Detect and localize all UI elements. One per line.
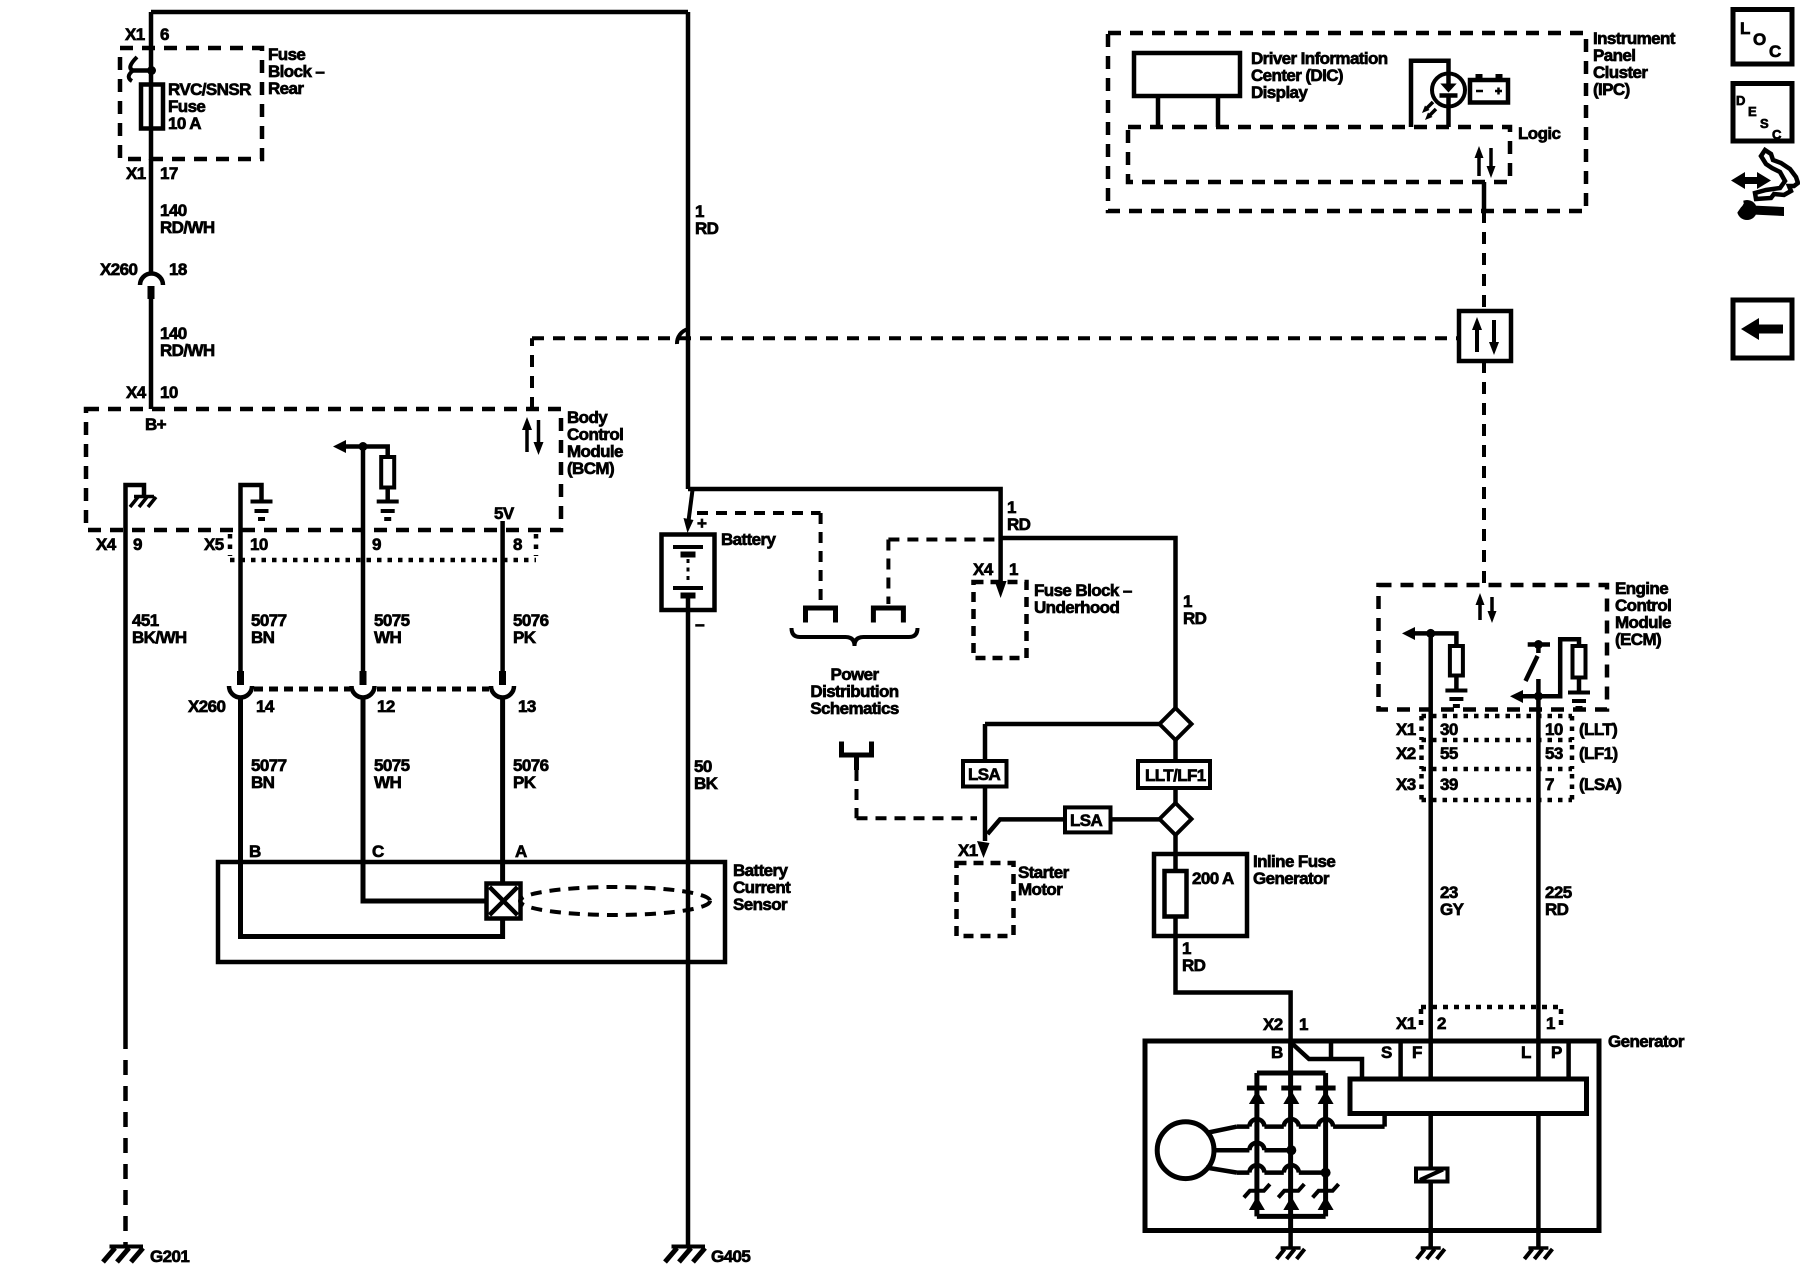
wire 225 RD (ECM to generator L) <box>1536 679 1541 1041</box>
svg-text:RD/WH: RD/WH <box>160 341 215 360</box>
svg-text:5V: 5V <box>494 504 515 523</box>
svg-text:Display: Display <box>1251 83 1308 102</box>
ECM serial data arrows <box>1476 593 1497 623</box>
serial data gateway box <box>1459 311 1511 361</box>
wire label 5076 PK (2) <box>513 756 549 792</box>
svg-text:LSA: LSA <box>1070 811 1103 830</box>
wire label 5077 BN <box>251 611 287 647</box>
wire label 451 BK/WH <box>132 611 187 647</box>
wire: lower diamond to LSA2 <box>1111 817 1160 822</box>
X260 row labels <box>188 697 536 716</box>
serial data hop mark on main wire <box>677 329 688 344</box>
LSA box 2 <box>1065 807 1111 832</box>
wire 451 BK/WH dashed lower segment <box>123 1034 128 1246</box>
svg-text:BK/WH: BK/WH <box>132 628 187 647</box>
ECM right driver: wire with junction <box>1521 639 1579 700</box>
X5 connector row labels <box>96 535 522 554</box>
svg-text:X260: X260 <box>188 697 225 716</box>
margin icon back arrow box <box>1733 300 1792 358</box>
svg-text:10: 10 <box>250 535 268 554</box>
svg-text:Schematics: Schematics <box>810 699 899 718</box>
IPC dashed box <box>1108 33 1586 211</box>
svg-text:Logic: Logic <box>1518 124 1560 143</box>
svg-text:WH: WH <box>374 628 401 647</box>
connector X260 pin 12 <box>352 671 375 698</box>
phase B junction on column 2 <box>1286 1145 1296 1155</box>
wire label 23 GY <box>1440 883 1465 919</box>
svg-text:(ECM): (ECM) <box>1615 630 1661 649</box>
power distribution bus bar 1 <box>806 608 836 623</box>
generator chassis ground (F) <box>1417 1248 1445 1259</box>
generator terminal divider P <box>1566 1041 1571 1079</box>
arrow into starter motor X1 <box>977 841 990 858</box>
svg-text:+: + <box>697 514 707 533</box>
ECM row X1 labels <box>1396 720 1617 739</box>
svg-text:1: 1 <box>1299 1015 1308 1034</box>
DIC display legs <box>1158 96 1218 127</box>
svg-text:RD/WH: RD/WH <box>160 218 215 237</box>
svg-text:9: 9 <box>133 535 142 554</box>
generator X1 connector dotted bracket <box>1421 1007 1561 1031</box>
wire: LSA1 to starter <box>983 787 988 842</box>
rectifier zener diode 1 <box>1244 1184 1270 1210</box>
starter motor label <box>1018 863 1070 899</box>
wire 5077 BN upper <box>238 530 243 671</box>
generator box <box>1145 1041 1599 1231</box>
svg-text:RD: RD <box>1183 609 1207 628</box>
svg-text:X4: X4 <box>126 383 147 402</box>
gateway arrows <box>1472 317 1499 355</box>
fuse block underhood label <box>1034 581 1132 617</box>
field winding symbol <box>1416 1169 1448 1182</box>
ECM left pull resistor <box>1450 646 1463 676</box>
margin icon DESC box <box>1733 84 1792 143</box>
generator ground stub B <box>1288 1231 1293 1249</box>
rectifier zener diode 2 <box>1278 1184 1304 1210</box>
wire 23 GY (ECM to generator F) <box>1428 633 1433 1041</box>
DIC display box <box>1134 53 1240 96</box>
svg-text:(BCM): (BCM) <box>567 459 614 478</box>
margin icon data exchange hand <box>1731 150 1798 199</box>
wire: fuse block rear feed drop X1-6 <box>149 12 154 70</box>
phase C hop over column 1 <box>1249 1165 1264 1173</box>
BCM earth ground symbol (pin 10) <box>251 502 273 520</box>
BCM pull resistor <box>381 457 394 488</box>
svg-text:Underhood: Underhood <box>1034 598 1119 617</box>
ECM earth ground (left) <box>1445 691 1467 707</box>
svg-text:B+: B+ <box>145 415 167 434</box>
ECM left driver: wire and junction <box>1413 629 1456 646</box>
wire label 140 RD/WH (2) <box>160 324 215 360</box>
BCM chassis ground symbol <box>130 497 156 508</box>
svg-text:Motor: Motor <box>1018 880 1063 899</box>
svg-text:X260: X260 <box>100 260 137 279</box>
wire: inline fuse to generator B X2-1 <box>1176 936 1291 1041</box>
svg-text:Rear: Rear <box>268 79 304 98</box>
wire: LSA2 to starter junction <box>988 819 1066 834</box>
stator phase B lead <box>1214 1148 1292 1153</box>
LLT/LF1 box <box>1138 761 1210 788</box>
svg-text:X3: X3 <box>1396 775 1416 794</box>
wire label 5077 BN (2) <box>251 756 287 792</box>
svg-text:O: O <box>1753 30 1766 49</box>
svg-text:X1: X1 <box>958 841 978 860</box>
svg-text:RD: RD <box>1545 900 1569 919</box>
phase A hop over column 3 <box>1318 1119 1333 1127</box>
svg-text:C: C <box>1772 127 1782 142</box>
svg-text:D: D <box>1736 93 1745 108</box>
svg-text:X4: X4 <box>96 535 117 554</box>
serial data dashed bus horizontal <box>532 336 1459 340</box>
svg-text:BN: BN <box>251 628 275 647</box>
svg-text:6: 6 <box>160 25 169 44</box>
svg-text:X1: X1 <box>125 25 145 44</box>
svg-text:8: 8 <box>513 535 522 554</box>
ECM dashed box <box>1379 585 1608 710</box>
wire 140 RD/WH upper segment <box>149 159 154 274</box>
svg-text:L: L <box>1521 1043 1531 1062</box>
generator ground stub F <box>1428 1231 1433 1249</box>
ECM connector dotted band row X1 <box>1422 716 1573 740</box>
DIC label <box>1251 49 1388 102</box>
wire 451 BK/WH <box>123 530 128 1034</box>
power distribution brace <box>792 628 918 646</box>
wire label 5076 PK <box>513 611 549 647</box>
rectifier top diode 1 <box>1247 1088 1267 1104</box>
svg-text:18: 18 <box>169 260 187 279</box>
power distribution stub symbol <box>842 742 872 771</box>
svg-text:E: E <box>1748 104 1757 119</box>
telltale emission arrows <box>1422 102 1436 120</box>
ECM right driver: arrow out <box>1510 690 1523 703</box>
generator terminal divider S/F <box>1398 1041 1403 1079</box>
BCM earth ground symbol (pin 9) <box>377 502 399 520</box>
wire: 1 RD branch to generator feed <box>1001 538 1176 708</box>
BCM internal ground branch X4-9: wire <box>126 485 145 530</box>
svg-text:X2: X2 <box>1263 1015 1283 1034</box>
serial data dashed: gateway to ECM <box>1482 361 1486 585</box>
connector X260 pin 18 <box>140 274 163 300</box>
X5 connector dotted band <box>230 534 536 560</box>
sensor terminal labels B C A <box>249 842 527 861</box>
rectifier bridge top bar <box>1257 1071 1326 1076</box>
svg-text:Generator: Generator <box>1253 869 1330 888</box>
svg-text:X1: X1 <box>1396 1014 1416 1033</box>
phase C hop over column 2 <box>1284 1165 1299 1173</box>
rectifier top diode 3 <box>1316 1088 1336 1104</box>
svg-text:B: B <box>1271 1043 1283 1062</box>
wire: battery negative 50 BK to G405 <box>686 598 691 1246</box>
wire label 1 RD (generator feed) <box>1182 939 1206 975</box>
generator ground stub L <box>1536 1231 1541 1249</box>
svg-text:1: 1 <box>1546 1014 1555 1033</box>
rectifier zener diode 3 <box>1313 1184 1339 1210</box>
wire 5076 PK lower (to sensor A) <box>500 697 505 884</box>
wire label 140 RD/WH <box>160 201 215 237</box>
arrow into battery positive <box>684 490 694 533</box>
svg-text:X5: X5 <box>204 535 224 554</box>
wire: main feed vertical 1 RD <box>686 12 691 489</box>
wire label 5075 WH (2) <box>374 756 410 792</box>
stator phase A lead <box>1206 1114 1385 1134</box>
svg-text:L: L <box>1740 19 1750 38</box>
generator B to S sense link <box>1292 1041 1363 1079</box>
svg-text:G201: G201 <box>150 1247 189 1266</box>
logic dashed box <box>1128 127 1510 182</box>
generator terminal letters <box>1271 1043 1562 1062</box>
wire 5075 WH upper <box>361 530 366 671</box>
BCM internal ground branch X5-10: wire <box>241 485 262 530</box>
splice diamond lower <box>1160 803 1192 835</box>
fuse block rear dashed box <box>120 48 262 159</box>
svg-text:LSA: LSA <box>968 765 1001 784</box>
power distribution schematics label <box>810 665 899 718</box>
rectifier top diode 2 <box>1281 1088 1301 1104</box>
svg-text:Battery: Battery <box>721 530 777 549</box>
svg-text:(LLT): (LLT) <box>1579 720 1617 739</box>
connector X260-18 labels <box>100 260 187 279</box>
svg-text:PK: PK <box>513 628 537 647</box>
node X4 pin 10 label <box>126 383 178 402</box>
svg-text:GY: GY <box>1440 900 1465 919</box>
stator winding circle <box>1157 1122 1214 1179</box>
svg-text:S: S <box>1381 1043 1392 1062</box>
ECM earth ground (right) <box>1568 693 1590 709</box>
BCM serial data arrows <box>522 417 544 455</box>
phase A hop over column 1 <box>1249 1119 1264 1127</box>
svg-text:BN: BN <box>251 773 275 792</box>
battery box <box>662 535 715 611</box>
svg-text:−: − <box>695 616 705 635</box>
generator F wire (field) <box>1428 1041 1433 1231</box>
wire label 1 RD (right) <box>1183 592 1207 628</box>
fuse F RVC/SNSR element hook <box>129 57 156 81</box>
splice diamond upper <box>1160 708 1192 740</box>
wire: logic to IPC edge <box>1482 182 1487 211</box>
wire 5077 BN lower (to sensor B) <box>241 697 503 937</box>
svg-text:G405: G405 <box>711 1247 750 1266</box>
svg-text:12: 12 <box>377 697 395 716</box>
LSA box 1 <box>963 761 1007 787</box>
BCM label <box>567 408 623 478</box>
svg-text:13: 13 <box>518 697 536 716</box>
svg-text:C: C <box>1769 42 1781 61</box>
svg-text:55: 55 <box>1440 744 1458 763</box>
battery cell plates <box>673 547 703 596</box>
node X1 pin 6 label <box>125 25 169 44</box>
svg-text:S: S <box>1760 116 1769 131</box>
serial data dashed: BCM riser <box>530 338 534 409</box>
connector X260 pin 14 <box>229 671 252 698</box>
svg-text:C: C <box>372 842 384 861</box>
telltale lamp circuit wire <box>1411 61 1449 127</box>
wire: battery branch to fuse block underhood <box>688 489 1001 583</box>
svg-text:RD: RD <box>1182 956 1206 975</box>
wire label 225 RD <box>1545 883 1572 919</box>
wire 5075 WH lower (to sensor C) <box>363 697 487 901</box>
ECM left driver: arrow out <box>1402 627 1415 640</box>
margin icon wrench <box>1727 196 1784 220</box>
svg-text:10: 10 <box>160 383 178 402</box>
wire through fuse <box>149 71 154 161</box>
BCM internal arrow (signal out) <box>333 440 346 453</box>
rectifier column 3 <box>1323 1073 1328 1216</box>
fuse block underhood dashed box <box>974 582 1027 658</box>
fuse block rear label <box>268 45 324 98</box>
svg-text:7: 7 <box>1545 775 1554 794</box>
dashed lead battery to power distribution <box>697 513 821 604</box>
stator phase C lead <box>1206 1168 1326 1173</box>
svg-text:X4: X4 <box>973 560 994 579</box>
node X1 pins 2 and 1 labels (generator) <box>1396 1014 1555 1033</box>
svg-text:X1: X1 <box>1396 720 1416 739</box>
svg-text:(LF1): (LF1) <box>1579 744 1618 763</box>
svg-text:A: A <box>515 842 527 861</box>
svg-text:17: 17 <box>160 164 178 183</box>
ground G201 symbol <box>103 1247 143 1263</box>
phase A hop over column 2 <box>1284 1119 1299 1127</box>
wire: diamond to LSA splice pack leg <box>985 724 1160 761</box>
fuse RVC/SNSR body <box>141 85 163 129</box>
svg-text:1: 1 <box>1009 560 1018 579</box>
svg-text:BK: BK <box>694 774 719 793</box>
generator B bus wire <box>1288 1041 1293 1231</box>
node X4 pin 1 labels <box>973 560 1018 579</box>
phase B hop over column 1 <box>1249 1143 1264 1151</box>
wire: top battery feed bus <box>151 10 688 15</box>
svg-text:RD: RD <box>1007 515 1031 534</box>
svg-text:Sensor: Sensor <box>733 895 788 914</box>
ECM right pull resistor <box>1573 646 1586 678</box>
inline fuse generator label <box>1253 852 1335 888</box>
BCM dashed box <box>86 409 561 530</box>
svg-text:10 A: 10 A <box>168 114 201 133</box>
ECM row X2 labels <box>1396 744 1618 763</box>
logic serial arrows <box>1475 146 1496 178</box>
svg-text:B: B <box>249 842 261 861</box>
ECM right resistor ground wire <box>1577 678 1582 692</box>
ECM row X3 labels <box>1396 775 1621 794</box>
battery current sensor loop dashed ellipse <box>520 887 710 915</box>
svg-text:30: 30 <box>1440 720 1458 739</box>
svg-text:P: P <box>1551 1043 1562 1062</box>
svg-text:RD: RD <box>695 219 719 238</box>
wire: between diamonds through LLT/LF1 <box>1173 740 1178 803</box>
battery current sensor label <box>733 861 791 914</box>
svg-text:PK: PK <box>513 773 537 792</box>
wire label 5075 WH <box>374 611 410 647</box>
ECM connector dotted band row X2 <box>1422 745 1573 769</box>
svg-text:WH: WH <box>374 773 401 792</box>
node X2 pin 1 labels <box>1263 1015 1308 1034</box>
BCM resistor ground wire <box>385 488 390 501</box>
battery current sensor box <box>218 862 725 962</box>
ECM right switch: top contact <box>1528 640 1550 653</box>
wire 5076 PK upper <box>500 521 505 671</box>
svg-text:10: 10 <box>1545 720 1563 739</box>
wire label 1 RD (underhood) <box>1007 498 1031 534</box>
ground G405 symbol <box>665 1247 705 1263</box>
starter motor dashed box <box>957 863 1014 936</box>
telltale LED circle <box>1432 74 1465 107</box>
svg-text:Generator: Generator <box>1608 1032 1685 1051</box>
svg-text:53: 53 <box>1545 744 1563 763</box>
wire: diamond lower to inline fuse <box>1173 835 1178 854</box>
phase C junction on column 3 <box>1321 1168 1331 1178</box>
power distribution bus bar 2 <box>873 608 903 623</box>
svg-text:200 A: 200 A <box>1192 869 1234 888</box>
ECM left resistor ground wire <box>1454 676 1459 690</box>
telltale LED diode <box>1440 74 1458 106</box>
IPC label <box>1593 29 1676 99</box>
svg-text:39: 39 <box>1440 775 1458 794</box>
svg-text:LLT/LF1: LLT/LF1 <box>1145 766 1206 785</box>
ECM right switch blade <box>1526 656 1538 681</box>
inline fuse element 200A <box>1165 854 1235 936</box>
svg-text:F: F <box>1412 1043 1422 1062</box>
dashed lead fuse block to power distribution <box>888 540 995 605</box>
voltage regulator block <box>1350 1079 1587 1114</box>
BCM internal sense branch pin 9: wire and junction <box>344 442 388 530</box>
ECM connector dotted band row X3 <box>1422 774 1573 800</box>
ECM label <box>1615 579 1671 649</box>
node X1 pin 17 label <box>126 164 178 183</box>
battery current sensor element (X box) <box>487 884 521 919</box>
svg-text:X1: X1 <box>126 164 146 183</box>
generator chassis ground (L) <box>1524 1248 1552 1259</box>
margin icon LOC box <box>1733 10 1792 65</box>
inline fuse generator box <box>1154 854 1247 936</box>
svg-text:9: 9 <box>372 535 381 554</box>
arrow into fuse block underhood X4-1 <box>995 581 1007 598</box>
battery telltale icon <box>1470 74 1508 103</box>
rectifier column 1 <box>1254 1073 1259 1216</box>
wire 140 RD/WH lower segment <box>149 299 154 409</box>
generator chassis ground (B) <box>1277 1248 1305 1259</box>
X260 band dashed links <box>254 687 489 692</box>
wire label 1 RD (main) <box>695 202 719 238</box>
connector X260 pin 13 <box>491 671 514 698</box>
wire label 50 BK <box>694 757 719 793</box>
rectifier bottom bar <box>1257 1214 1326 1219</box>
serial data dashed: IPC to gateway <box>1482 211 1486 311</box>
dashed lead to starter feed <box>857 770 978 818</box>
svg-text:(LSA): (LSA) <box>1579 775 1621 794</box>
generator L wire <box>1536 1041 1541 1231</box>
svg-text:2: 2 <box>1437 1014 1446 1033</box>
svg-text:14: 14 <box>256 697 275 716</box>
svg-text:(IPC): (IPC) <box>1593 80 1630 99</box>
svg-text:X2: X2 <box>1396 744 1416 763</box>
fuse RVC/SNSR label <box>168 80 251 133</box>
